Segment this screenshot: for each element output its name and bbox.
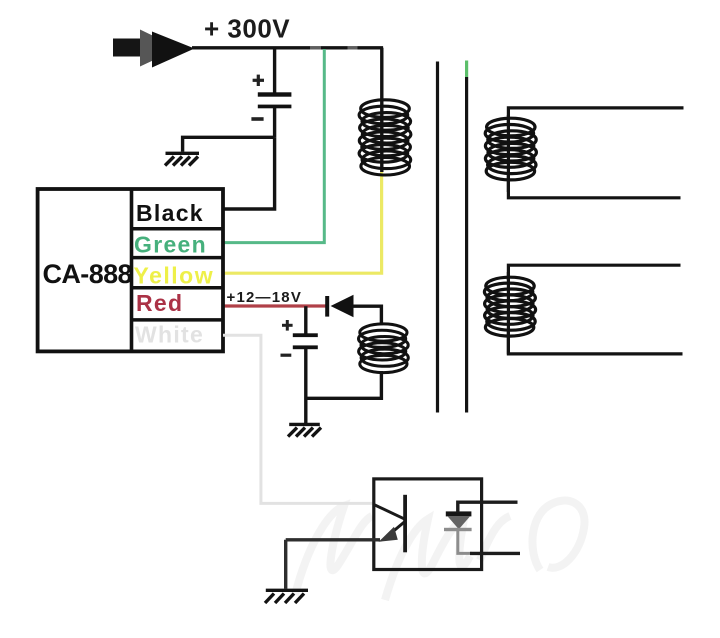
wire: rail to capacitor C1 — [273, 48, 276, 94]
svg-text:Yellow: Yellow — [134, 263, 215, 289]
optocoupler U1 box — [374, 479, 482, 570]
label C2 minus — [281, 354, 292, 357]
inductor L3 secondary — [484, 277, 535, 336]
svg-text:+ 300V: + 300V — [204, 14, 290, 44]
wire: Red rail down to capacitor C2 — [304, 306, 307, 334]
wire: +300V rail to primary coil L1 — [380, 48, 383, 172]
LED D2 anode bar — [446, 511, 472, 516]
wire: L3 bottom pin — [508, 330, 682, 354]
svg-text:CA-888: CA-888 — [43, 259, 133, 289]
wire: D2 cathode gray segment — [458, 531, 472, 553]
wire: ground G3 to emitter — [286, 540, 380, 589]
svg-text:White: White — [135, 322, 204, 348]
transistor Q1 emitter — [384, 522, 405, 540]
transformer core — [438, 61, 467, 413]
transistor Q1 base bar — [403, 495, 407, 553]
wire: C1 bottom to junction — [273, 108, 276, 137]
wire: D1 anode to coil L4 — [353, 306, 382, 323]
svg-text:+12—18V: +12—18V — [227, 289, 303, 306]
wire: C2 bottom to ground G2 — [304, 349, 307, 423]
svg-text:Green: Green — [134, 232, 207, 258]
transistor Q1 collector — [374, 505, 405, 520]
diode D1 — [325, 295, 353, 317]
wire: junction down to Black pin — [223, 137, 275, 209]
svg-text:Black: Black — [136, 200, 204, 226]
ground G3 — [265, 590, 308, 603]
wire: junction to ground G1 — [183, 137, 275, 152]
wire: Red pin to diode D1 — [223, 304, 326, 307]
module CA-888 box — [38, 189, 223, 351]
label C1 plus — [253, 75, 264, 86]
label C1 minus — [251, 117, 263, 121]
wire: D2 cathode out — [470, 552, 520, 555]
wire: Green pin up to +300V rail — [223, 49, 324, 243]
ground G1 — [165, 153, 199, 165]
LED D2 cathode bar — [444, 528, 472, 531]
wire: secondary L2 top pin — [508, 108, 683, 125]
wire: L3 winding axis — [507, 272, 510, 354]
svg-text:Red: Red — [136, 290, 183, 316]
inductor L2 secondary — [485, 118, 536, 180]
inductor L4 — [359, 324, 409, 373]
watermark — [295, 501, 584, 600]
capacitor C1 — [258, 92, 292, 108]
wire: secondary L3 top pin — [508, 265, 680, 280]
wire: Yellow pin to primary coil bottom — [223, 172, 382, 273]
inductor L1 primary — [359, 100, 411, 175]
transistor Q1 emitter arrow — [379, 527, 398, 542]
LED D2 triangle — [447, 516, 470, 529]
wire: L2 bottom pin — [508, 175, 680, 198]
capacitor C2 — [293, 333, 318, 349]
wire: White pin to optocoupler — [223, 335, 374, 503]
wire: L4 bottom to C2 node — [306, 371, 382, 398]
label C2 plus — [282, 320, 293, 331]
wire: L2 winding axis — [507, 115, 510, 192]
input arrow — [113, 30, 195, 68]
ground G2 — [288, 424, 321, 436]
wire: D2 anode out — [458, 502, 518, 512]
wire: +300V rail — [192, 46, 383, 49]
